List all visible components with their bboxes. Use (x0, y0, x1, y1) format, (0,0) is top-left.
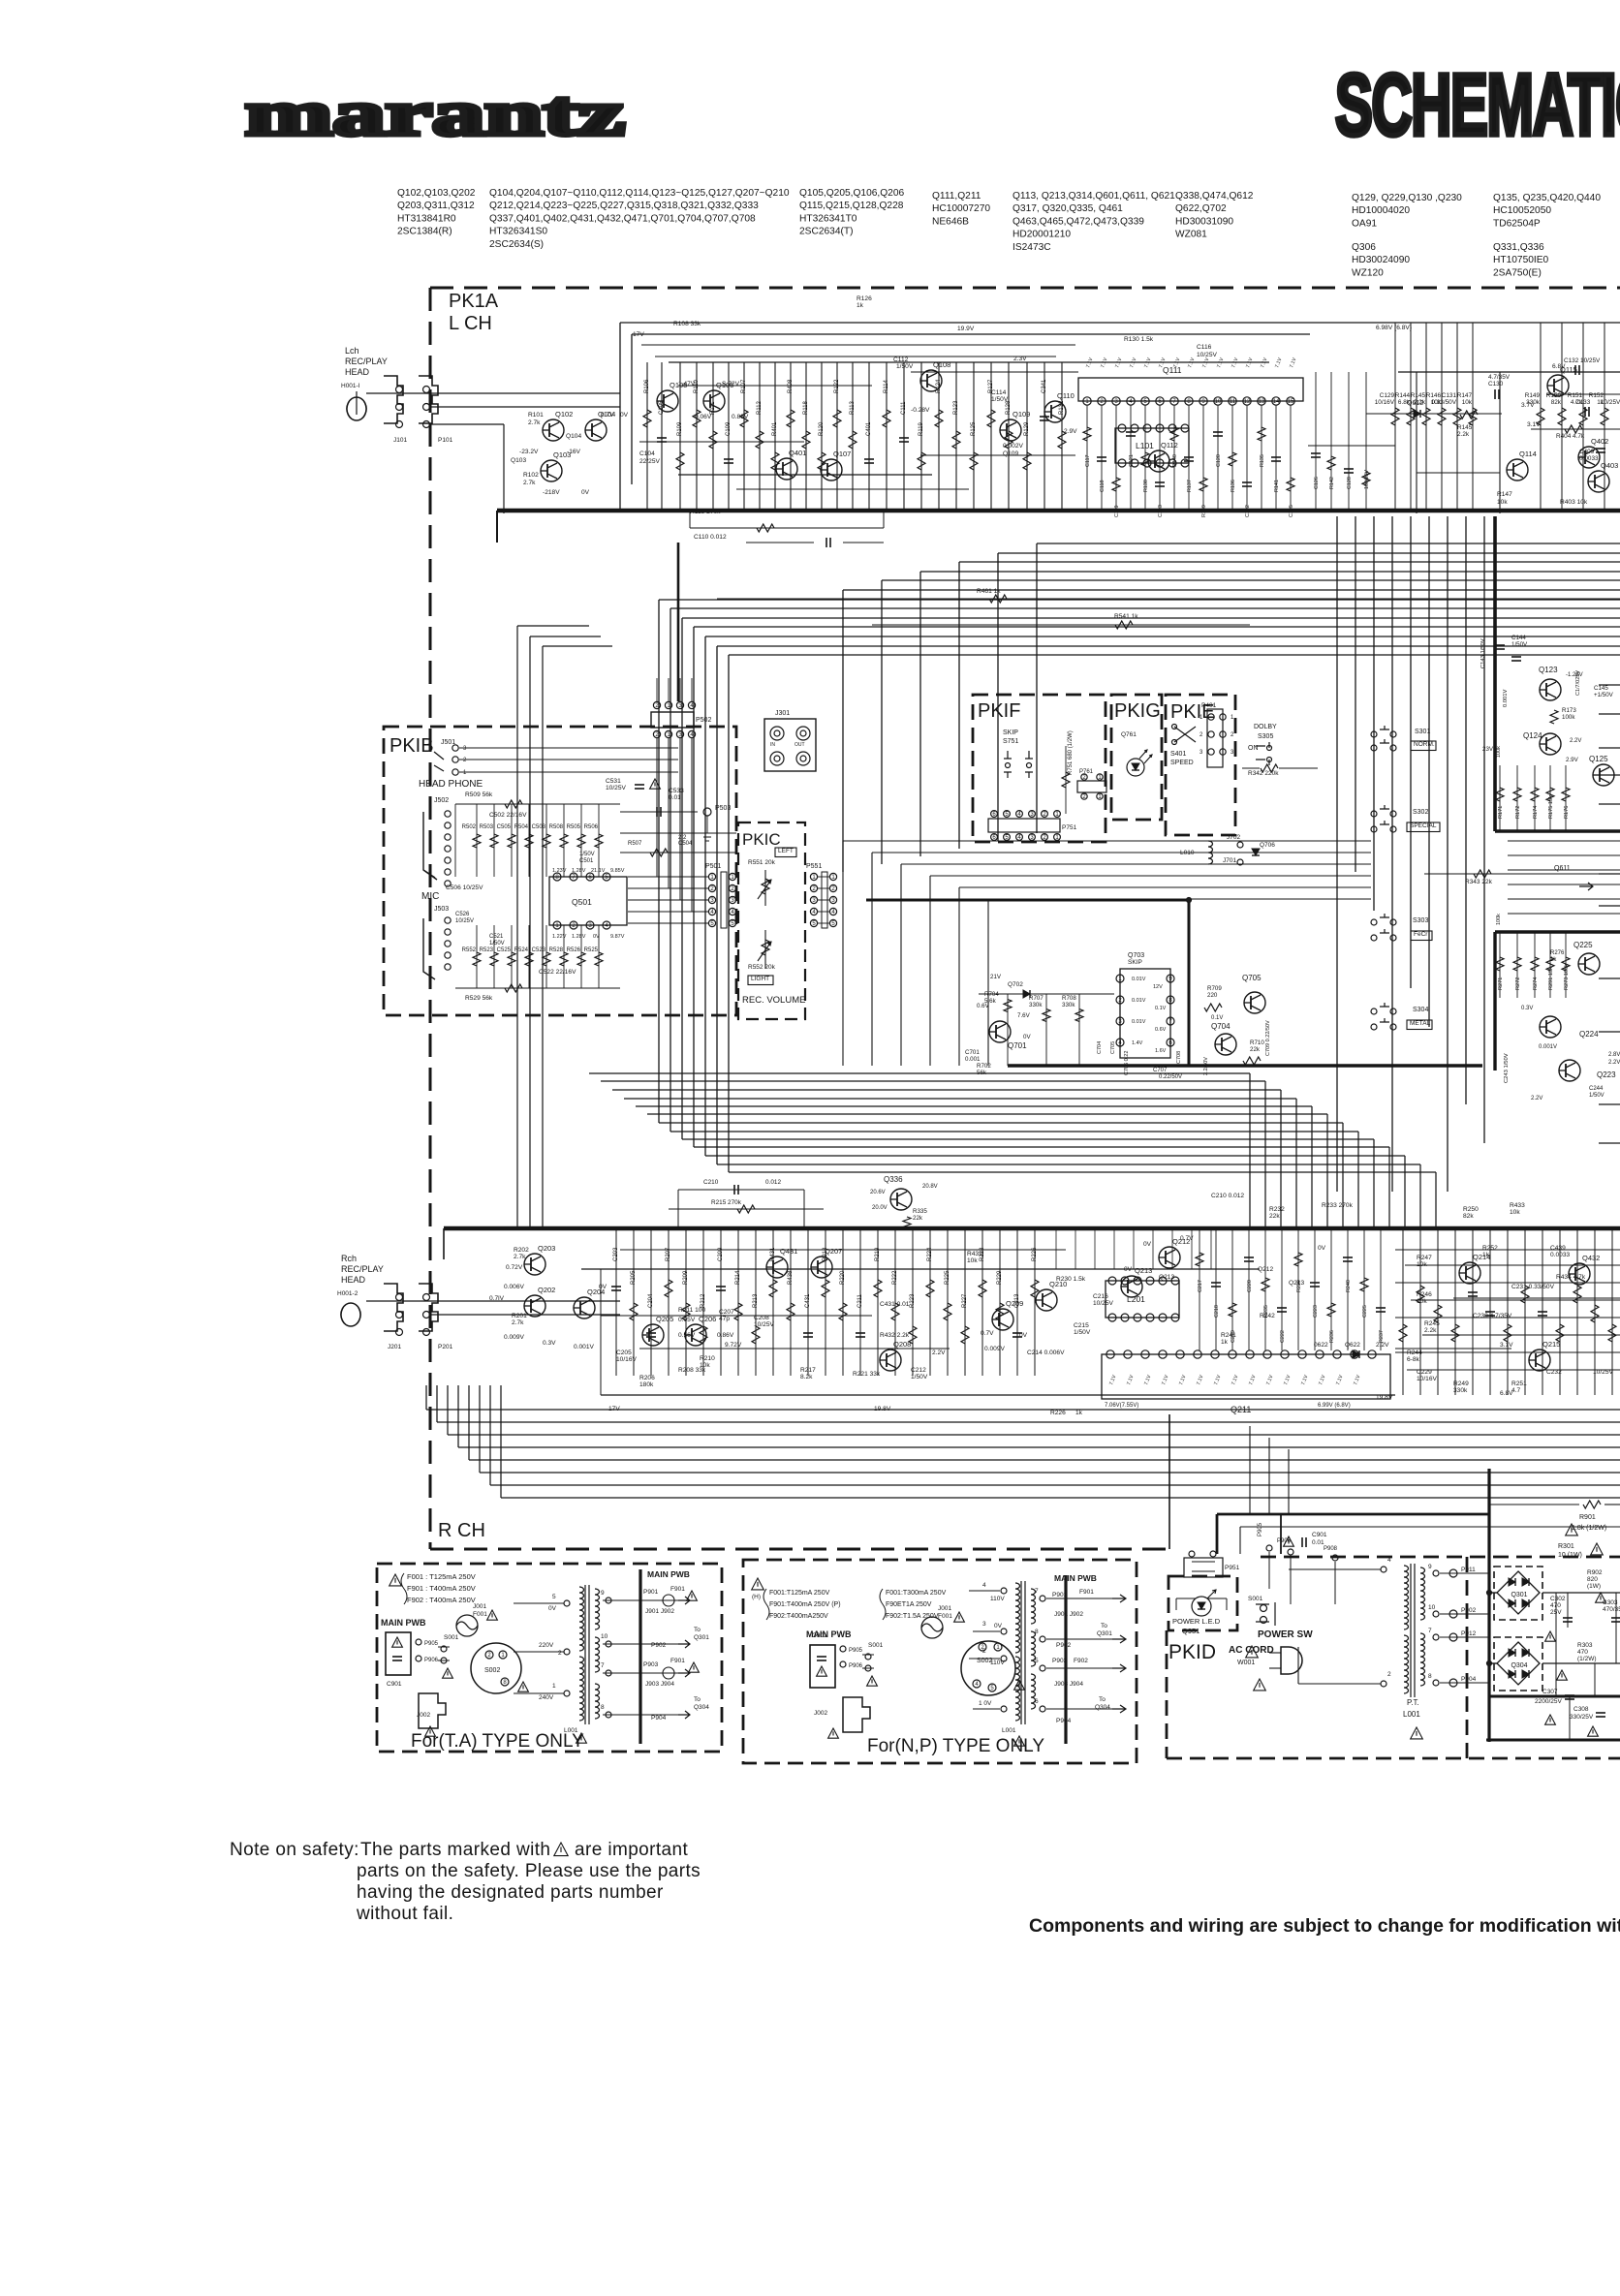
capacitor stub b3 (1244, 1257, 1254, 1261)
wire (1417, 472, 1500, 474)
svg-text:are important: are important (575, 1840, 688, 1860)
svg-text:PKIC: PKIC (742, 830, 781, 849)
wire (969, 1658, 1000, 1660)
svg-text:0.002V: 0.002V (1003, 443, 1024, 450)
svg-text:100k: 100k (1496, 746, 1502, 758)
svg-text:0.009V: 0.009V (504, 1334, 525, 1341)
wire (1066, 1667, 1112, 1669)
wire (615, 1228, 617, 1376)
svg-text:C112: C112 (893, 357, 909, 363)
svg-text:0V: 0V (1023, 1034, 1031, 1040)
svg-text:Q123: Q123 (1539, 666, 1558, 674)
svg-text:9: 9 (1428, 1564, 1432, 1570)
wire (818, 876, 829, 878)
wire (1405, 1264, 1620, 1266)
svg-text:R222: R222 (892, 1270, 898, 1285)
svg-text:P905: P905 (424, 1641, 439, 1647)
svg-text:F001:T300mA 250V: F001:T300mA 250V (886, 1590, 947, 1597)
svg-text:R125: R125 (971, 421, 977, 436)
svg-text:10/16V: 10/16V (1417, 1376, 1438, 1382)
svg-text:C901: C901 (1312, 1532, 1327, 1538)
wire (1411, 1299, 1620, 1301)
wire (759, 362, 761, 511)
pin (1194, 1350, 1201, 1358)
svg-text:R502: R502 (462, 824, 477, 830)
svg-text:6.8k: 6.8k (1398, 399, 1411, 406)
wire (1290, 405, 1292, 511)
wire (1380, 1228, 1382, 1350)
transistor (1559, 1060, 1580, 1081)
svg-text:R272: R272 (1515, 977, 1521, 990)
svg-text:Q501: Q501 (572, 897, 592, 907)
pin 11 (1229, 397, 1236, 405)
wire (1242, 767, 1260, 769)
svg-text:R225: R225 (945, 1270, 950, 1285)
svg-text:-0.28V: -0.28V (911, 407, 930, 414)
wire (501, 1497, 1620, 1499)
svg-text:0.22/50V: 0.22/50V (1159, 1074, 1182, 1080)
wire (969, 1590, 1000, 1592)
wire (581, 1268, 1260, 1270)
capacitor stub b5 (1277, 1308, 1287, 1312)
svg-text:2.9V: 2.9V (1064, 428, 1077, 435)
wire (1037, 543, 1620, 544)
svg-text:OA91: OA91 (1352, 218, 1377, 229)
pin (1433, 1634, 1439, 1640)
pin (865, 1665, 871, 1671)
svg-text:0.7V: 0.7V (981, 1330, 994, 1337)
wire (1542, 1662, 1620, 1664)
svg-text:C225: C225 (1362, 1305, 1368, 1318)
safety mark (650, 779, 661, 789)
wire (818, 899, 829, 901)
pin (445, 822, 451, 828)
svg-text:2: 2 (1231, 732, 1234, 738)
wire (679, 362, 681, 511)
resistor stub 14 (1287, 478, 1294, 491)
wire (929, 1228, 931, 1376)
svg-text:P551: P551 (806, 863, 822, 870)
wire (1489, 1592, 1497, 1594)
svg-text:C526: C526 (455, 912, 470, 917)
svg-text:10k: 10k (967, 1257, 978, 1264)
svg-text:21V: 21V (990, 974, 1002, 980)
svg-text:220: 220 (1207, 992, 1218, 999)
transistor Q215 (1529, 1350, 1550, 1371)
wire (717, 598, 1620, 600)
pin (1027, 763, 1032, 768)
junction (1486, 1660, 1491, 1665)
svg-text:0V: 0V (1318, 1245, 1326, 1252)
resistor R147 10k (1469, 408, 1477, 425)
diode (1509, 1670, 1515, 1678)
wire (459, 747, 678, 749)
resistor (1546, 957, 1554, 971)
wire (1290, 1556, 1292, 1604)
svg-text:HD10004020: HD10004020 (1352, 205, 1410, 216)
svg-text:3.1V: 3.1V (1527, 421, 1541, 428)
svg-text:7.1V: 7.1V (1178, 1374, 1187, 1386)
svg-text:Q104,Q204,Q107~Q110,Q112,Q114,: Q104,Q204,Q107~Q110,Q112,Q114,Q123~Q125,… (489, 188, 790, 199)
pin 2 (570, 921, 577, 929)
svg-text:R509 56k: R509 56k (465, 791, 493, 798)
wire (1472, 323, 1474, 511)
svg-text:470: 470 (1577, 1649, 1588, 1656)
svg-text:10/25V: 10/25V (1093, 1300, 1114, 1307)
headphone jack J501 (434, 752, 444, 771)
safety mark (1591, 1543, 1604, 1555)
wire (356, 391, 358, 415)
pin (1208, 731, 1214, 737)
pin (774, 730, 780, 736)
capacitor C203 330p (611, 1287, 621, 1290)
pin (1267, 758, 1272, 762)
wire (650, 1228, 652, 1376)
svg-text:NE646B: NE646B (932, 216, 969, 227)
svg-text:19.9V: 19.9V (957, 326, 975, 332)
svg-text:Q104: Q104 (566, 433, 581, 440)
svg-text:R119: R119 (919, 421, 924, 436)
pin 3 (1112, 397, 1120, 405)
pin (396, 404, 403, 411)
wire (1192, 1561, 1215, 1563)
pin 2 (1116, 996, 1124, 1004)
svg-text:DOLBY: DOLBY (1254, 724, 1277, 730)
svg-text:R552: R552 (462, 947, 477, 953)
wire (1456, 323, 1458, 511)
svg-text:10 (1W): 10 (1W) (1558, 1552, 1582, 1559)
wire (668, 738, 670, 765)
pin (441, 1646, 447, 1652)
pin 2 (708, 884, 715, 892)
wire (868, 362, 870, 511)
svg-text:Q102,Q103,Q202: Q102,Q103,Q202 (397, 188, 476, 199)
wire (1493, 516, 1497, 831)
svg-text:J702: J702 (1227, 834, 1240, 841)
svg-text:C120: C120 (1216, 454, 1222, 467)
svg-text:J301: J301 (775, 710, 790, 717)
capacitor (392, 1657, 402, 1660)
svg-text:Q115,Q215,Q128,Q228: Q115,Q215,Q128,Q228 (799, 201, 904, 211)
wire (1440, 1682, 1489, 1684)
pin (1108, 1277, 1116, 1285)
svg-text:1.47V: 1.47V (678, 381, 696, 388)
wire (517, 625, 589, 627)
transistor Q203 (524, 1254, 545, 1275)
wire (459, 771, 678, 773)
wire (655, 356, 1056, 357)
wire (528, 925, 530, 988)
wire (1599, 1142, 1620, 1144)
svg-text:HD20001210: HD20001210 (1012, 230, 1071, 240)
resistor R125 100k (970, 452, 978, 470)
capacitor stub 5 (1155, 482, 1165, 486)
wire (755, 1228, 757, 1376)
svg-text:P951: P951 (1225, 1565, 1240, 1571)
svg-text:0.01: 0.01 (669, 794, 681, 801)
svg-text:Q611: Q611 (1554, 865, 1571, 872)
wire (1231, 1228, 1233, 1350)
svg-text:C525: C525 (497, 947, 512, 953)
svg-text:C211: C211 (857, 1293, 863, 1308)
pin (1208, 749, 1214, 755)
wire (1171, 1228, 1173, 1269)
wire (790, 1228, 792, 1376)
transistor Q206 (685, 1324, 706, 1346)
wire (1561, 323, 1563, 511)
svg-text:7.1V: 7.1V (1335, 1374, 1344, 1386)
connector J101 P101 (384, 376, 403, 423)
svg-text:P905: P905 (1258, 1522, 1263, 1536)
wire (1269, 1667, 1281, 1669)
svg-text:R130 1.5k: R130 1.5k (1124, 336, 1154, 343)
svg-text:10: 10 (1428, 1604, 1436, 1611)
J002 NP (843, 1697, 870, 1732)
svg-text:21.1V: 21.1V (591, 868, 606, 874)
svg-text:Q125: Q125 (1589, 755, 1608, 763)
svg-text:F001:T125mA 250V: F001:T125mA 250V (769, 1590, 830, 1597)
svg-text:R176: R176 (1564, 806, 1570, 819)
wire (1594, 1228, 1596, 1395)
resistor stub 2 (1112, 478, 1120, 491)
svg-text:100/25V: 100/25V (1364, 470, 1370, 489)
wire (803, 1190, 805, 1228)
pin (800, 730, 806, 736)
capacitor C211 0.01 (856, 1333, 865, 1337)
wire (670, 607, 1620, 609)
svg-text:Q206: Q206 (699, 1315, 716, 1323)
wire (1440, 1572, 1489, 1574)
resistor (1550, 710, 1558, 724)
svg-text:Q203,Q311,Q312: Q203,Q311,Q312 (397, 201, 475, 211)
pin (1131, 424, 1138, 432)
wire (912, 1228, 914, 1376)
wire (1297, 1228, 1299, 1350)
svg-text:PKIG: PKIG (1114, 700, 1161, 722)
wire (872, 852, 1371, 853)
svg-text:P901: P901 (643, 1589, 659, 1596)
wire (691, 738, 693, 765)
wire (1275, 405, 1277, 511)
resistor R111 100 (709, 431, 717, 449)
svg-text:P401: P401 (1201, 702, 1217, 709)
svg-text:C114: C114 (991, 389, 1007, 396)
resistor R227 10k (961, 1326, 969, 1344)
svg-text:R227: R227 (962, 1293, 968, 1308)
resistor (1583, 1501, 1601, 1508)
svg-text:HC10007270: HC10007270 (932, 203, 990, 214)
svg-text:L101: L101 (1136, 441, 1154, 450)
svg-text:R408: R408 (788, 379, 794, 393)
svg-text:1k: 1k (1221, 1339, 1229, 1346)
svg-text:20.8V: 20.8V (922, 1184, 938, 1190)
svg-text:2SC2634(T): 2SC2634(T) (799, 227, 854, 237)
transistor (1540, 1016, 1561, 1038)
wire (633, 1228, 635, 1376)
wire (1208, 1598, 1227, 1599)
svg-text:330/25V: 330/25V (1570, 1714, 1594, 1721)
svg-text:PKIF: PKIF (978, 700, 1020, 722)
wire (1173, 405, 1175, 511)
svg-text:R433: R433 (1510, 1202, 1525, 1209)
capacitor (1596, 449, 1605, 452)
pin (1211, 1350, 1219, 1358)
safety mark (443, 1668, 453, 1678)
svg-text:7.06V(7.55V): 7.06V(7.55V) (1105, 1403, 1138, 1409)
svg-text:Q306: Q306 (1352, 242, 1376, 253)
svg-text:C501: C501 (579, 858, 594, 864)
wire (603, 1714, 640, 1716)
pin (1146, 1277, 1154, 1285)
wire (1599, 713, 1620, 715)
capacitor C209 47/10V (716, 1287, 726, 1290)
wire (886, 362, 888, 511)
pin (396, 1294, 403, 1301)
svg-text:Q202: Q202 (538, 1286, 555, 1294)
resistor stub b0 (1196, 1253, 1203, 1266)
svg-text:0622: 0622 (1314, 1342, 1328, 1349)
svg-text:Q951: Q951 (1182, 1627, 1199, 1635)
svg-text:R229: R229 (997, 1270, 1003, 1285)
svg-text:C704: C704 (1097, 1041, 1103, 1054)
wire (545, 925, 547, 988)
wire (563, 925, 565, 988)
resistor (903, 1217, 911, 1228)
svg-text:P201: P201 (438, 1344, 453, 1350)
svg-text:C522 22/16V: C522 22/16V (539, 969, 576, 976)
pin (1390, 1024, 1396, 1030)
resistor R252 (1573, 1286, 1581, 1303)
capacitor C431 0.01 (803, 1333, 813, 1337)
svg-text:C111: C111 (901, 401, 907, 415)
diode (1522, 1599, 1529, 1607)
svg-text:SCHEMATIC: SCHEMATIC (1335, 57, 1620, 154)
wire (1217, 1513, 1489, 1516)
wire (1269, 1652, 1281, 1654)
wire (679, 738, 681, 900)
pin (1146, 1314, 1154, 1321)
pin (1040, 1636, 1045, 1642)
pin (1261, 1617, 1267, 1624)
transistor Q213 (1121, 1276, 1142, 1297)
svg-text:56k: 56k (977, 1070, 987, 1076)
box (1078, 378, 1303, 401)
svg-text:10: 10 (601, 1633, 608, 1640)
pin 8 (501, 1678, 509, 1686)
svg-text:4.7k: 4.7k (1571, 399, 1583, 406)
svg-text:R529 56k: R529 56k (465, 995, 493, 1002)
svg-text:J001: J001 (473, 1603, 486, 1610)
svg-text:2: 2 (1199, 732, 1203, 738)
svg-text:Q209: Q209 (1006, 1299, 1023, 1308)
svg-text:C431 0.01: C431 0.01 (880, 1301, 910, 1308)
resistor R401 10k (771, 452, 779, 470)
svg-text:1: 1 (463, 770, 467, 776)
diode (1509, 1578, 1515, 1586)
wire (679, 678, 681, 701)
svg-text:7.1V: 7.1V (1289, 357, 1297, 369)
wire (1202, 405, 1204, 511)
transistor Q403 (1588, 471, 1609, 492)
resistor stub b2 (1229, 1303, 1236, 1317)
svg-text:110V: 110V (990, 1660, 1005, 1666)
resistor R209 100k (682, 1303, 690, 1320)
wire (973, 1708, 1000, 1710)
capacitor stub b7 (1310, 1283, 1320, 1287)
wire (1246, 405, 1248, 511)
svg-text:J002: J002 (417, 1712, 430, 1719)
svg-text:220V: 220V (539, 1642, 554, 1649)
svg-text:NORM.: NORM. (1414, 741, 1435, 748)
pin 5 (988, 1684, 996, 1691)
svg-text:C222: C222 (1280, 1330, 1286, 1343)
svg-text:C308: C308 (1573, 1706, 1589, 1713)
resistor C503 18p (543, 834, 550, 848)
resistor stub b6 (1294, 1253, 1302, 1266)
pin (1040, 1706, 1045, 1712)
svg-text:0.009V: 0.009V (984, 1346, 1006, 1352)
wire (1555, 1593, 1557, 1696)
svg-text:Q213: Q213 (1289, 1280, 1304, 1287)
svg-text:5.6k: 5.6k (984, 998, 997, 1005)
wire (807, 1228, 809, 1376)
resistor R249 (1504, 1324, 1511, 1342)
box (1207, 709, 1223, 767)
svg-text:For(T.A) TYPE ONLY: For(T.A) TYPE ONLY (411, 1731, 584, 1752)
pin (445, 857, 451, 863)
pin 3 (829, 896, 836, 904)
wire (1508, 854, 1620, 856)
wire (628, 922, 708, 924)
svg-text:HEAD: HEAD (341, 1275, 366, 1285)
wire (903, 362, 905, 511)
resistor (505, 984, 522, 992)
transistor Q207 (811, 1257, 832, 1278)
svg-text:SPECIAL: SPECIAL (1410, 822, 1437, 829)
resistor R144 6.8k (1407, 408, 1415, 425)
resistor R523 10k (490, 952, 498, 966)
pin (1332, 1555, 1338, 1561)
resistor R213 3.9k (752, 1326, 760, 1344)
wire (706, 816, 708, 833)
wire (678, 1189, 804, 1191)
svg-text:Q301: Q301 (1097, 1630, 1112, 1637)
pin (1368, 1350, 1376, 1358)
wire (468, 1385, 470, 1460)
svg-text:Q402: Q402 (1591, 437, 1608, 446)
svg-text:820: 820 (1587, 1576, 1598, 1583)
svg-text:J001: J001 (938, 1605, 951, 1612)
wire (459, 759, 678, 760)
wire (490, 1484, 1620, 1486)
pin 4 (1016, 811, 1023, 819)
svg-text:MAIN PWB: MAIN PWB (1054, 1573, 1097, 1583)
safety mark (1545, 1631, 1556, 1641)
wire (843, 542, 884, 543)
svg-text:R210: R210 (700, 1355, 715, 1362)
pin (1127, 759, 1144, 776)
svg-text:R902: R902 (1587, 1569, 1603, 1576)
resistor R219 8.2k (874, 1280, 882, 1297)
wire (825, 1228, 826, 1376)
svg-text:REC. VOLUME: REC. VOLUME (742, 995, 805, 1006)
wire (514, 1692, 564, 1694)
PKIB box (384, 727, 736, 1015)
svg-text:R123: R123 (953, 400, 959, 415)
transistor Q104 (585, 419, 607, 441)
wire (1330, 372, 1332, 511)
svg-text:R118: R118 (803, 400, 809, 415)
